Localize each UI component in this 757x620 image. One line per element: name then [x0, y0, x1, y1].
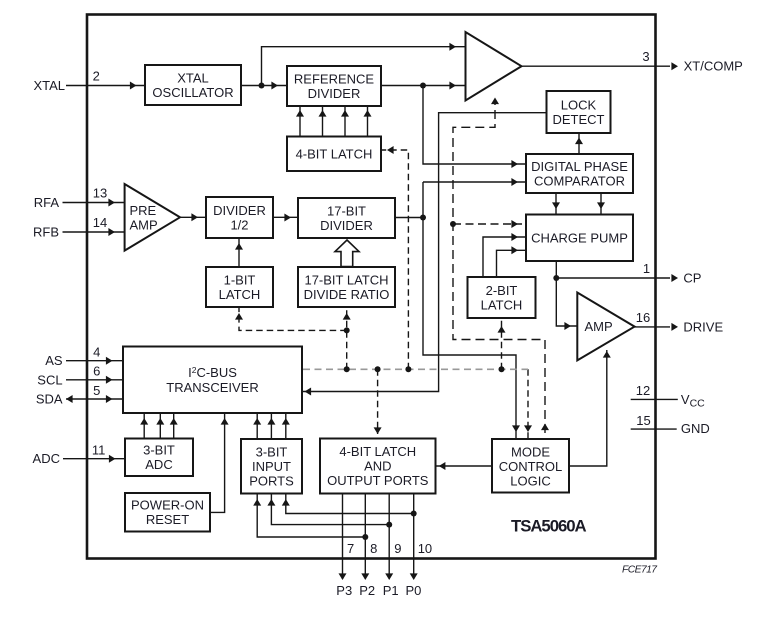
svg-text:13: 13	[93, 186, 107, 201]
svg-text:4: 4	[93, 345, 100, 360]
svg-text:DIVIDE RATIO: DIVIDE RATIO	[304, 287, 390, 302]
svg-text:PORTS: PORTS	[249, 473, 294, 488]
svg-text:GND: GND	[681, 421, 710, 436]
svg-text:DRIVE: DRIVE	[683, 319, 723, 334]
svg-text:5: 5	[93, 383, 100, 398]
svg-text:TRANSCEIVER: TRANSCEIVER	[166, 380, 258, 395]
svg-text:P0: P0	[406, 583, 422, 598]
svg-text:2-BIT: 2-BIT	[486, 283, 518, 298]
svg-text:COMPARATOR: COMPARATOR	[534, 173, 625, 188]
svg-text:CHARGE PUMP: CHARGE PUMP	[531, 230, 628, 245]
svg-text:12: 12	[636, 383, 650, 398]
svg-text:INPUT: INPUT	[252, 459, 291, 474]
svg-text:AMP: AMP	[130, 217, 158, 232]
svg-text:17-BIT LATCH: 17-BIT LATCH	[304, 273, 388, 288]
svg-text:DIVIDER: DIVIDER	[213, 203, 266, 218]
svg-text:11: 11	[92, 443, 106, 458]
svg-text:SCL: SCL	[37, 372, 62, 387]
svg-text:2: 2	[93, 69, 100, 84]
svg-text:FCE717: FCE717	[622, 565, 658, 576]
svg-text:DIVIDER: DIVIDER	[320, 218, 373, 233]
svg-text:P2: P2	[359, 583, 375, 598]
svg-text:AMP: AMP	[585, 319, 613, 334]
svg-text:AS: AS	[45, 353, 63, 368]
svg-text:LOCK: LOCK	[561, 97, 597, 112]
svg-text:3: 3	[642, 49, 649, 64]
svg-text:ADC: ADC	[145, 457, 172, 472]
svg-text:14: 14	[93, 215, 107, 230]
svg-text:8: 8	[370, 541, 377, 556]
svg-text:MODE: MODE	[511, 445, 550, 460]
svg-text:ADC: ADC	[33, 451, 60, 466]
svg-text:P3: P3	[336, 583, 352, 598]
svg-text:LATCH: LATCH	[219, 287, 261, 302]
svg-text:OUTPUT PORTS: OUTPUT PORTS	[327, 473, 429, 488]
svg-text:AND: AND	[364, 459, 391, 474]
svg-text:CP: CP	[683, 271, 701, 286]
svg-text:REFERENCE: REFERENCE	[294, 71, 375, 86]
svg-text:CONTROL: CONTROL	[499, 459, 563, 474]
svg-text:LATCH: LATCH	[481, 297, 523, 312]
svg-text:DIGITAL PHASE: DIGITAL PHASE	[531, 159, 628, 174]
svg-text:1-BIT: 1-BIT	[224, 273, 256, 288]
svg-text:10: 10	[418, 541, 432, 556]
svg-text:RFB: RFB	[33, 225, 59, 240]
svg-text:DIVIDER: DIVIDER	[308, 86, 361, 101]
svg-text:1: 1	[643, 261, 650, 276]
svg-text:1/2: 1/2	[230, 218, 248, 233]
svg-text:15: 15	[636, 413, 650, 428]
svg-text:3-BIT: 3-BIT	[256, 444, 288, 459]
svg-text:RFA: RFA	[34, 195, 60, 210]
svg-text:XT/COMP: XT/COMP	[684, 59, 743, 74]
svg-text:4-BIT LATCH: 4-BIT LATCH	[296, 146, 373, 161]
svg-text:3-BIT: 3-BIT	[143, 443, 175, 458]
svg-text:POWER-ON: POWER-ON	[131, 498, 204, 513]
svg-text:P1: P1	[383, 583, 399, 598]
svg-text:7: 7	[347, 541, 354, 556]
svg-text:RESET: RESET	[146, 512, 189, 527]
svg-text:VCC: VCC	[681, 392, 705, 410]
svg-text:16: 16	[636, 310, 650, 325]
svg-text:PRE: PRE	[130, 203, 157, 218]
svg-text:17-BIT: 17-BIT	[327, 204, 366, 219]
svg-text:XTAL: XTAL	[33, 78, 65, 93]
svg-text:DETECT: DETECT	[553, 112, 605, 127]
svg-text:LOGIC: LOGIC	[510, 474, 550, 489]
svg-text:TSA5060A: TSA5060A	[511, 516, 587, 535]
svg-text:6: 6	[93, 364, 100, 379]
svg-text:XTAL: XTAL	[177, 70, 209, 85]
svg-text:4-BIT LATCH: 4-BIT LATCH	[339, 444, 416, 459]
svg-text:9: 9	[394, 541, 401, 556]
svg-text:SDA: SDA	[36, 392, 63, 407]
svg-text:OSCILLATOR: OSCILLATOR	[152, 85, 233, 100]
